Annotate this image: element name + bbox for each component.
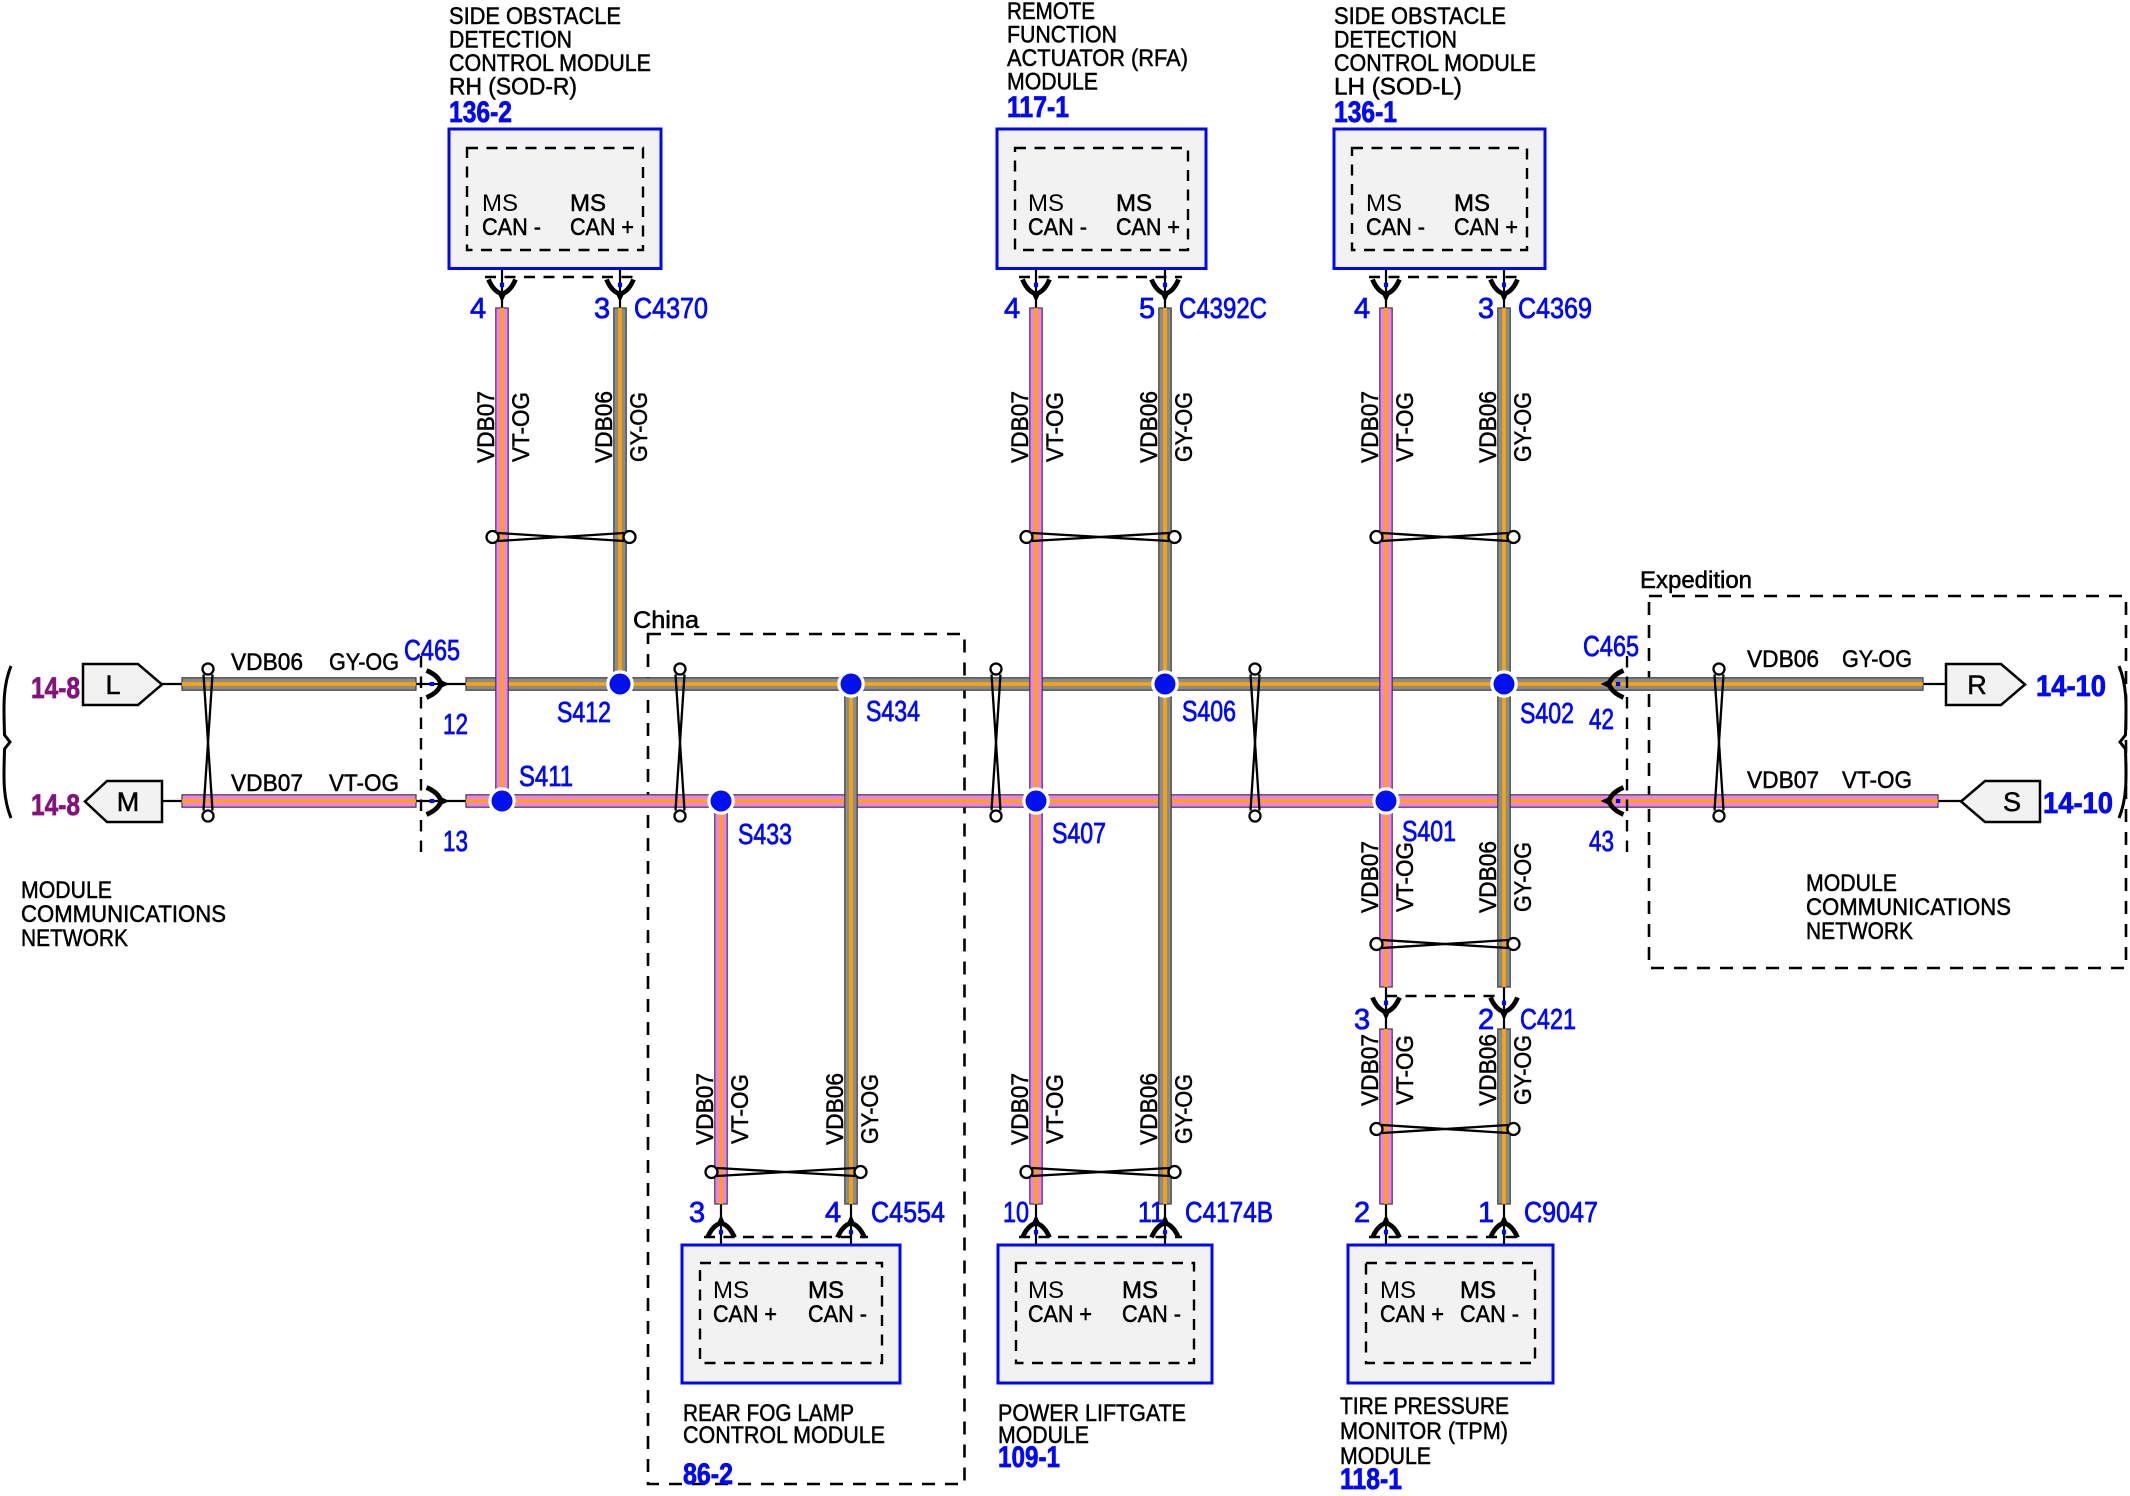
- connector C4174B arrow pin 11: [1152, 1215, 1179, 1238]
- caption module communications network left: [21, 877, 226, 952]
- svg-text:S434: S434: [866, 696, 920, 728]
- connector C9047 boundary: [1369, 1236, 1521, 1238]
- svg-text:VDB06: VDB06: [1136, 391, 1163, 463]
- svg-text:VT-OG: VT-OG: [329, 770, 399, 797]
- svg-text:VDB06: VDB06: [591, 391, 618, 463]
- svg-text:S: S: [2003, 787, 2021, 817]
- pin stub x=1386 bottom module: [1385, 1204, 1387, 1263]
- svg-text:VDB06: VDB06: [1475, 841, 1502, 913]
- wire VDB06 GY-OG top bus left segment: [182, 678, 416, 690]
- svg-text:VDB07: VDB07: [473, 391, 500, 463]
- connector arrow L to page 14-8: [83, 664, 162, 705]
- svg-text:S411: S411: [519, 761, 573, 793]
- svg-text:GY-OG: GY-OG: [857, 1074, 884, 1144]
- splice S407: [1022, 787, 1106, 850]
- connector C4554 arrow pin 4: [838, 1215, 865, 1238]
- module RFA (Remote Function Actuator) box: [997, 129, 1206, 269]
- module Rear Fog Lamp title: [683, 1400, 885, 1449]
- wire VDB06 GY-OG top bus main segment: [466, 678, 1923, 690]
- wire VDB07 VT-OG bottom bus left segment: [182, 795, 416, 807]
- label VDB07 VT-OG on vertical wire x=1386: [1357, 391, 1419, 463]
- wire VDB07 VT-OG from C421 pin 3 to TPM pin 2: [1380, 1029, 1392, 1204]
- svg-text:MS: MS: [1028, 1277, 1064, 1304]
- svg-text:VDB07: VDB07: [692, 1073, 719, 1145]
- svg-text:1: 1: [1478, 1197, 1494, 1229]
- svg-text:MS: MS: [1454, 190, 1490, 217]
- svg-text:VDB07: VDB07: [1007, 391, 1034, 463]
- svg-text:VT-OG: VT-OG: [1842, 767, 1912, 794]
- pin stub x=502 top module: [501, 250, 503, 308]
- svg-text:VDB06: VDB06: [822, 1073, 849, 1145]
- twisted pair marker on bus at x=1255: [1250, 664, 1261, 822]
- Expedition harness boundary: [1649, 596, 2126, 968]
- svg-text:GY-OG: GY-OG: [1510, 1035, 1537, 1105]
- svg-text:MS: MS: [1366, 190, 1402, 217]
- label VDB07 VT-OG on vertical wire x=502: [473, 391, 535, 463]
- twisted pair marker at (502,537): [487, 531, 636, 543]
- svg-text:COMMUNICATIONS: COMMUNICATIONS: [21, 901, 226, 928]
- svg-text:VDB07: VDB07: [1357, 391, 1384, 463]
- connector C465 right arrow bottom: [1601, 788, 1624, 815]
- svg-text:C4392C: C4392C: [1179, 293, 1267, 325]
- svg-text:CONTROL MODULE: CONTROL MODULE: [683, 1422, 885, 1449]
- label VDB06 GY-OG on vertical wire x=1504: [1475, 1034, 1537, 1106]
- svg-text:COMMUNICATIONS: COMMUNICATIONS: [1806, 894, 2011, 921]
- module SOD-L title: [1334, 3, 1536, 101]
- svg-text:5: 5: [1139, 293, 1155, 325]
- connector C421 boundary: [1386, 995, 1504, 997]
- svg-text:TIRE PRESSURE: TIRE PRESSURE: [1340, 1393, 1509, 1420]
- svg-text:42: 42: [1589, 704, 1614, 736]
- pin stub x=1386 top module: [1385, 250, 1387, 308]
- connector C4370 boundary: [485, 276, 637, 278]
- svg-text:CAN +: CAN +: [1116, 214, 1180, 241]
- connector C465 left boundary: [420, 656, 422, 856]
- connector C9047 arrow pin 2: [1373, 1215, 1400, 1238]
- svg-text:4: 4: [1354, 293, 1370, 325]
- connector C421 arrow pin 2: [1491, 998, 1518, 1021]
- connector C4369 arrow pin 4: [1373, 280, 1400, 303]
- svg-text:12: 12: [443, 709, 468, 741]
- splice S434: [837, 670, 920, 728]
- svg-text:109-1: 109-1: [998, 1441, 1060, 1474]
- svg-text:MODULE: MODULE: [21, 877, 112, 904]
- svg-text:14-8: 14-8: [31, 672, 80, 705]
- twisted pair marker at (1036,537): [1021, 531, 1181, 543]
- svg-text:C421: C421: [1520, 1004, 1576, 1036]
- svg-text:4: 4: [1004, 293, 1020, 325]
- svg-text:10: 10: [1003, 1197, 1029, 1229]
- svg-text:117-1: 117-1: [1007, 91, 1069, 124]
- svg-text:CAN +: CAN +: [1454, 214, 1518, 241]
- pin stub x=1036 bottom module: [1035, 1204, 1037, 1263]
- connector C4392C arrow pin 4: [1023, 280, 1050, 303]
- svg-text:MS: MS: [570, 190, 606, 217]
- module SOD-L (Side Obstacle Detection Control Module LH) box: [1334, 129, 1545, 269]
- label VDB07 VT-OG on vertical wire x=1036: [1007, 391, 1069, 463]
- svg-text:118-1: 118-1: [1340, 1463, 1402, 1496]
- svg-text:VDB07: VDB07: [231, 770, 303, 797]
- svg-text:MS: MS: [482, 190, 518, 217]
- wire VDB07 VT-OG from RFA pin 4 through S407 to liftgate pin 10: [1030, 308, 1042, 1204]
- svg-text:MS: MS: [1116, 190, 1152, 217]
- module Power Liftgate title: [998, 1400, 1186, 1449]
- svg-text:MODULE: MODULE: [1806, 870, 1897, 897]
- connector C4370 arrow pin 4: [489, 280, 516, 303]
- svg-text:C4554: C4554: [871, 1197, 945, 1229]
- connector C4174B boundary: [1019, 1236, 1182, 1238]
- svg-text:C4369: C4369: [1518, 293, 1592, 325]
- svg-text:S433: S433: [738, 819, 792, 851]
- svg-text:China: China: [633, 607, 700, 634]
- svg-text:14-10: 14-10: [2036, 670, 2106, 703]
- svg-text:C465: C465: [1583, 631, 1639, 663]
- pin stub x=851 bottom module: [850, 1204, 852, 1263]
- connector C465 left arrow bottom: [427, 788, 450, 815]
- twisted pair marker on bus at x=1719: [1714, 664, 1725, 822]
- svg-text:GY-OG: GY-OG: [1510, 842, 1537, 912]
- splice S406: [1151, 670, 1236, 728]
- svg-text:VT-OG: VT-OG: [1042, 1074, 1069, 1144]
- svg-text:NETWORK: NETWORK: [21, 925, 128, 952]
- svg-text:R: R: [1967, 670, 1987, 700]
- label VDB07 VT-OG on vertical wire x=1386: [1357, 841, 1419, 913]
- pin stub x=1165 top module: [1164, 250, 1166, 308]
- svg-text:13: 13: [443, 826, 468, 858]
- svg-text:C9047: C9047: [1524, 1197, 1598, 1229]
- label VDB06 GY-OG on vertical wire x=620: [591, 391, 653, 463]
- label VDB06 GY-OG on vertical wire x=1504: [1475, 391, 1537, 463]
- pin stub x=1036 top module: [1035, 250, 1037, 308]
- svg-text:MS: MS: [1460, 1277, 1496, 1304]
- continuation brace left: [4, 666, 11, 818]
- svg-text:CAN +: CAN +: [713, 1301, 777, 1328]
- svg-text:136-1: 136-1: [1334, 96, 1397, 129]
- wire VDB07 VT-OG from S433 to rear fog lamp pin 3: [715, 801, 727, 1204]
- svg-text:GY-OG: GY-OG: [1171, 1074, 1198, 1144]
- svg-text:MS: MS: [1122, 1277, 1158, 1304]
- label VDB06 GY-OG on vertical wire x=1504: [1475, 841, 1537, 913]
- wire VDB06 GY-OG from SOD-R pin 3 to S412: [614, 308, 626, 684]
- twisted pair marker at (1386,537): [1371, 531, 1520, 543]
- svg-text:3: 3: [689, 1197, 705, 1229]
- svg-text:VT-OG: VT-OG: [508, 392, 535, 462]
- pin stub x=620 top module: [619, 250, 621, 308]
- svg-text:CAN +: CAN +: [570, 214, 634, 241]
- svg-text:2: 2: [1478, 1004, 1494, 1036]
- svg-text:VT-OG: VT-OG: [727, 1074, 754, 1144]
- module TPM title: [1340, 1393, 1509, 1470]
- connector arrow M to page 14-8: [85, 781, 162, 822]
- svg-text:GY-OG: GY-OG: [1842, 646, 1912, 673]
- svg-text:GY-OG: GY-OG: [626, 392, 653, 462]
- svg-text:CAN -: CAN -: [1366, 214, 1425, 241]
- svg-text:VT-OG: VT-OG: [1392, 1035, 1419, 1105]
- module Power Liftgate Module box: [998, 1245, 1212, 1383]
- svg-text:43: 43: [1589, 826, 1614, 858]
- label VDB06 GY-OG right bus: [1747, 646, 1912, 673]
- module Rear Fog Lamp Control Module box: [682, 1245, 900, 1383]
- pin stub x=1504 top module: [1503, 250, 1505, 308]
- pin stub x=721 bottom module: [720, 1204, 722, 1263]
- connector C421 arrow pin 3: [1373, 998, 1400, 1021]
- svg-text:GY-OG: GY-OG: [1171, 392, 1198, 462]
- svg-text:4: 4: [470, 293, 486, 325]
- svg-text:NETWORK: NETWORK: [1806, 918, 1913, 945]
- svg-text:86-2: 86-2: [683, 1458, 733, 1491]
- label VDB07 VT-OG right bus: [1747, 767, 1912, 794]
- caption module communications network right: [1806, 870, 2011, 945]
- svg-text:VDB07: VDB07: [1357, 1034, 1384, 1106]
- twisted pair marker at (1386,1129): [1371, 1123, 1520, 1135]
- label VDB07 VT-OG on vertical wire x=721: [692, 1073, 754, 1145]
- pin stub x=1165 bottom module: [1164, 1204, 1166, 1263]
- module SOD-R title: [449, 3, 651, 101]
- twisted pair marker at (721,1172): [706, 1166, 867, 1178]
- connector C465 left arrow top: [427, 671, 450, 698]
- connector C4369 arrow pin 3: [1491, 280, 1518, 303]
- svg-text:VDB07: VDB07: [1007, 1073, 1034, 1145]
- svg-text:11: 11: [1138, 1197, 1164, 1229]
- svg-text:C4370: C4370: [634, 293, 708, 325]
- svg-text:C465: C465: [404, 635, 460, 667]
- svg-text:Expedition: Expedition: [1640, 567, 1752, 594]
- label VDB06 GY-OG on vertical wire x=851: [822, 1073, 884, 1145]
- module SOD-R (Side Obstacle Detection Control Module RH) box: [449, 129, 661, 269]
- wire VDB07 VT-OG bottom bus main segment: [466, 795, 1938, 807]
- label VDB06 GY-OG on vertical wire x=1165: [1136, 1073, 1198, 1145]
- svg-text:VDB06: VDB06: [231, 649, 303, 676]
- svg-text:CAN -: CAN -: [1460, 1301, 1519, 1328]
- svg-text:VT-OG: VT-OG: [1392, 842, 1419, 912]
- svg-text:M: M: [117, 787, 140, 817]
- svg-text:S406: S406: [1182, 696, 1236, 728]
- pin stub x=1386 C421: [1385, 987, 1387, 1029]
- svg-text:CAN -: CAN -: [1028, 214, 1087, 241]
- pin stub x=1504 C421: [1503, 987, 1505, 1029]
- svg-text:MS: MS: [1028, 190, 1064, 217]
- wire VDB06 GY-OG from C421 pin 2 to TPM pin 1: [1498, 1029, 1510, 1204]
- connector C4392C arrow pin 5: [1152, 280, 1179, 303]
- svg-text:VDB07: VDB07: [1357, 841, 1384, 913]
- wire VDB06 GY-OG from SOD-L pin 3 through S402 to C421 pin 2: [1498, 308, 1510, 987]
- svg-text:MS: MS: [808, 1277, 844, 1304]
- svg-text:VDB07: VDB07: [1747, 767, 1819, 794]
- label VDB07 VT-OG on vertical wire x=1386: [1357, 1034, 1419, 1106]
- svg-text:136-2: 136-2: [449, 96, 512, 129]
- twisted pair marker on bus at x=208: [203, 664, 214, 822]
- svg-text:VDB06: VDB06: [1475, 391, 1502, 463]
- svg-text:CAN -: CAN -: [1122, 1301, 1181, 1328]
- svg-text:GY-OG: GY-OG: [329, 649, 399, 676]
- twisted pair marker on bus at x=680: [675, 664, 686, 822]
- svg-text:S407: S407: [1052, 818, 1106, 850]
- connector C4392C boundary: [1019, 276, 1182, 278]
- twisted pair marker on bus at x=996: [991, 664, 1002, 822]
- splice S401: [1372, 787, 1456, 848]
- connector C465 right arrow top: [1601, 671, 1624, 698]
- wire bottom bus conductor: [162, 800, 1961, 802]
- svg-text:14-8: 14-8: [31, 789, 80, 822]
- svg-text:CAN +: CAN +: [1380, 1301, 1444, 1328]
- svg-text:2: 2: [1354, 1197, 1370, 1229]
- svg-text:CAN -: CAN -: [808, 1301, 867, 1328]
- svg-text:L: L: [105, 670, 120, 700]
- svg-text:S402: S402: [1520, 698, 1574, 730]
- wire VDB06 GY-OG from RFA pin 5 through S406 to liftgate pin 11: [1159, 308, 1171, 1204]
- svg-text:CAN -: CAN -: [482, 214, 541, 241]
- svg-text:S412: S412: [557, 697, 611, 729]
- svg-text:14-10: 14-10: [2043, 787, 2113, 820]
- svg-text:VDB06: VDB06: [1136, 1073, 1163, 1145]
- splice S433: [707, 787, 792, 851]
- svg-text:VDB06: VDB06: [1475, 1034, 1502, 1106]
- continuation brace right: [2119, 666, 2126, 818]
- splice S411: [488, 761, 573, 815]
- svg-text:MONITOR (TPM): MONITOR (TPM): [1340, 1418, 1508, 1445]
- connector C4369 boundary: [1369, 276, 1521, 278]
- label VDB07 VT-OG left bus: [231, 770, 399, 797]
- svg-text:GY-OG: GY-OG: [1510, 392, 1537, 462]
- svg-text:VDB06: VDB06: [1747, 646, 1819, 673]
- connector C4554 boundary: [704, 1236, 868, 1238]
- connector C4174B arrow pin 10: [1023, 1215, 1050, 1238]
- svg-text:VT-OG: VT-OG: [1042, 392, 1069, 462]
- svg-text:VT-OG: VT-OG: [1392, 392, 1419, 462]
- wire VDB06 GY-OG from S434 to rear fog lamp pin 4: [845, 684, 857, 1204]
- connector arrow S to page 14-10: [1961, 781, 2040, 822]
- connector C4554 arrow pin 3: [708, 1215, 735, 1238]
- connector C9047 arrow pin 1: [1491, 1215, 1518, 1238]
- module TPM (Tire Pressure Monitor) box: [1348, 1245, 1553, 1383]
- label VDB06 GY-OG left bus: [231, 649, 399, 676]
- connector C465 right boundary: [1626, 656, 1628, 856]
- svg-text:CAN +: CAN +: [1028, 1301, 1092, 1328]
- wire VDB07 VT-OG from SOD-R pin 4 to S411: [496, 308, 508, 801]
- svg-text:MS: MS: [1380, 1277, 1416, 1304]
- twisted pair marker at (1386,944): [1371, 938, 1520, 950]
- svg-text:S401: S401: [1402, 816, 1456, 848]
- svg-text:4: 4: [825, 1197, 841, 1229]
- splice S402: [1490, 670, 1574, 730]
- svg-text:C4174B: C4174B: [1185, 1197, 1273, 1229]
- twisted pair marker at (1036,1172): [1021, 1166, 1181, 1178]
- connector C4370 arrow pin 3: [607, 280, 634, 303]
- connector arrow R to page 14-10: [1946, 664, 2025, 705]
- label VDB07 VT-OG on vertical wire x=1036: [1007, 1073, 1069, 1145]
- China harness boundary: [648, 634, 965, 1484]
- wire top bus conductor: [162, 683, 1946, 685]
- wire VDB07 VT-OG from SOD-L pin 4 through S401 to C421 pin 3: [1380, 308, 1392, 987]
- module RFA title: [1007, 0, 1188, 96]
- pin stub x=1504 bottom module: [1503, 1204, 1505, 1263]
- splice S412: [557, 670, 634, 729]
- svg-text:3: 3: [594, 293, 610, 325]
- svg-text:3: 3: [1478, 293, 1494, 325]
- label VDB06 GY-OG on vertical wire x=1165: [1136, 391, 1198, 463]
- svg-text:MS: MS: [713, 1277, 749, 1304]
- svg-text:3: 3: [1354, 1004, 1370, 1036]
